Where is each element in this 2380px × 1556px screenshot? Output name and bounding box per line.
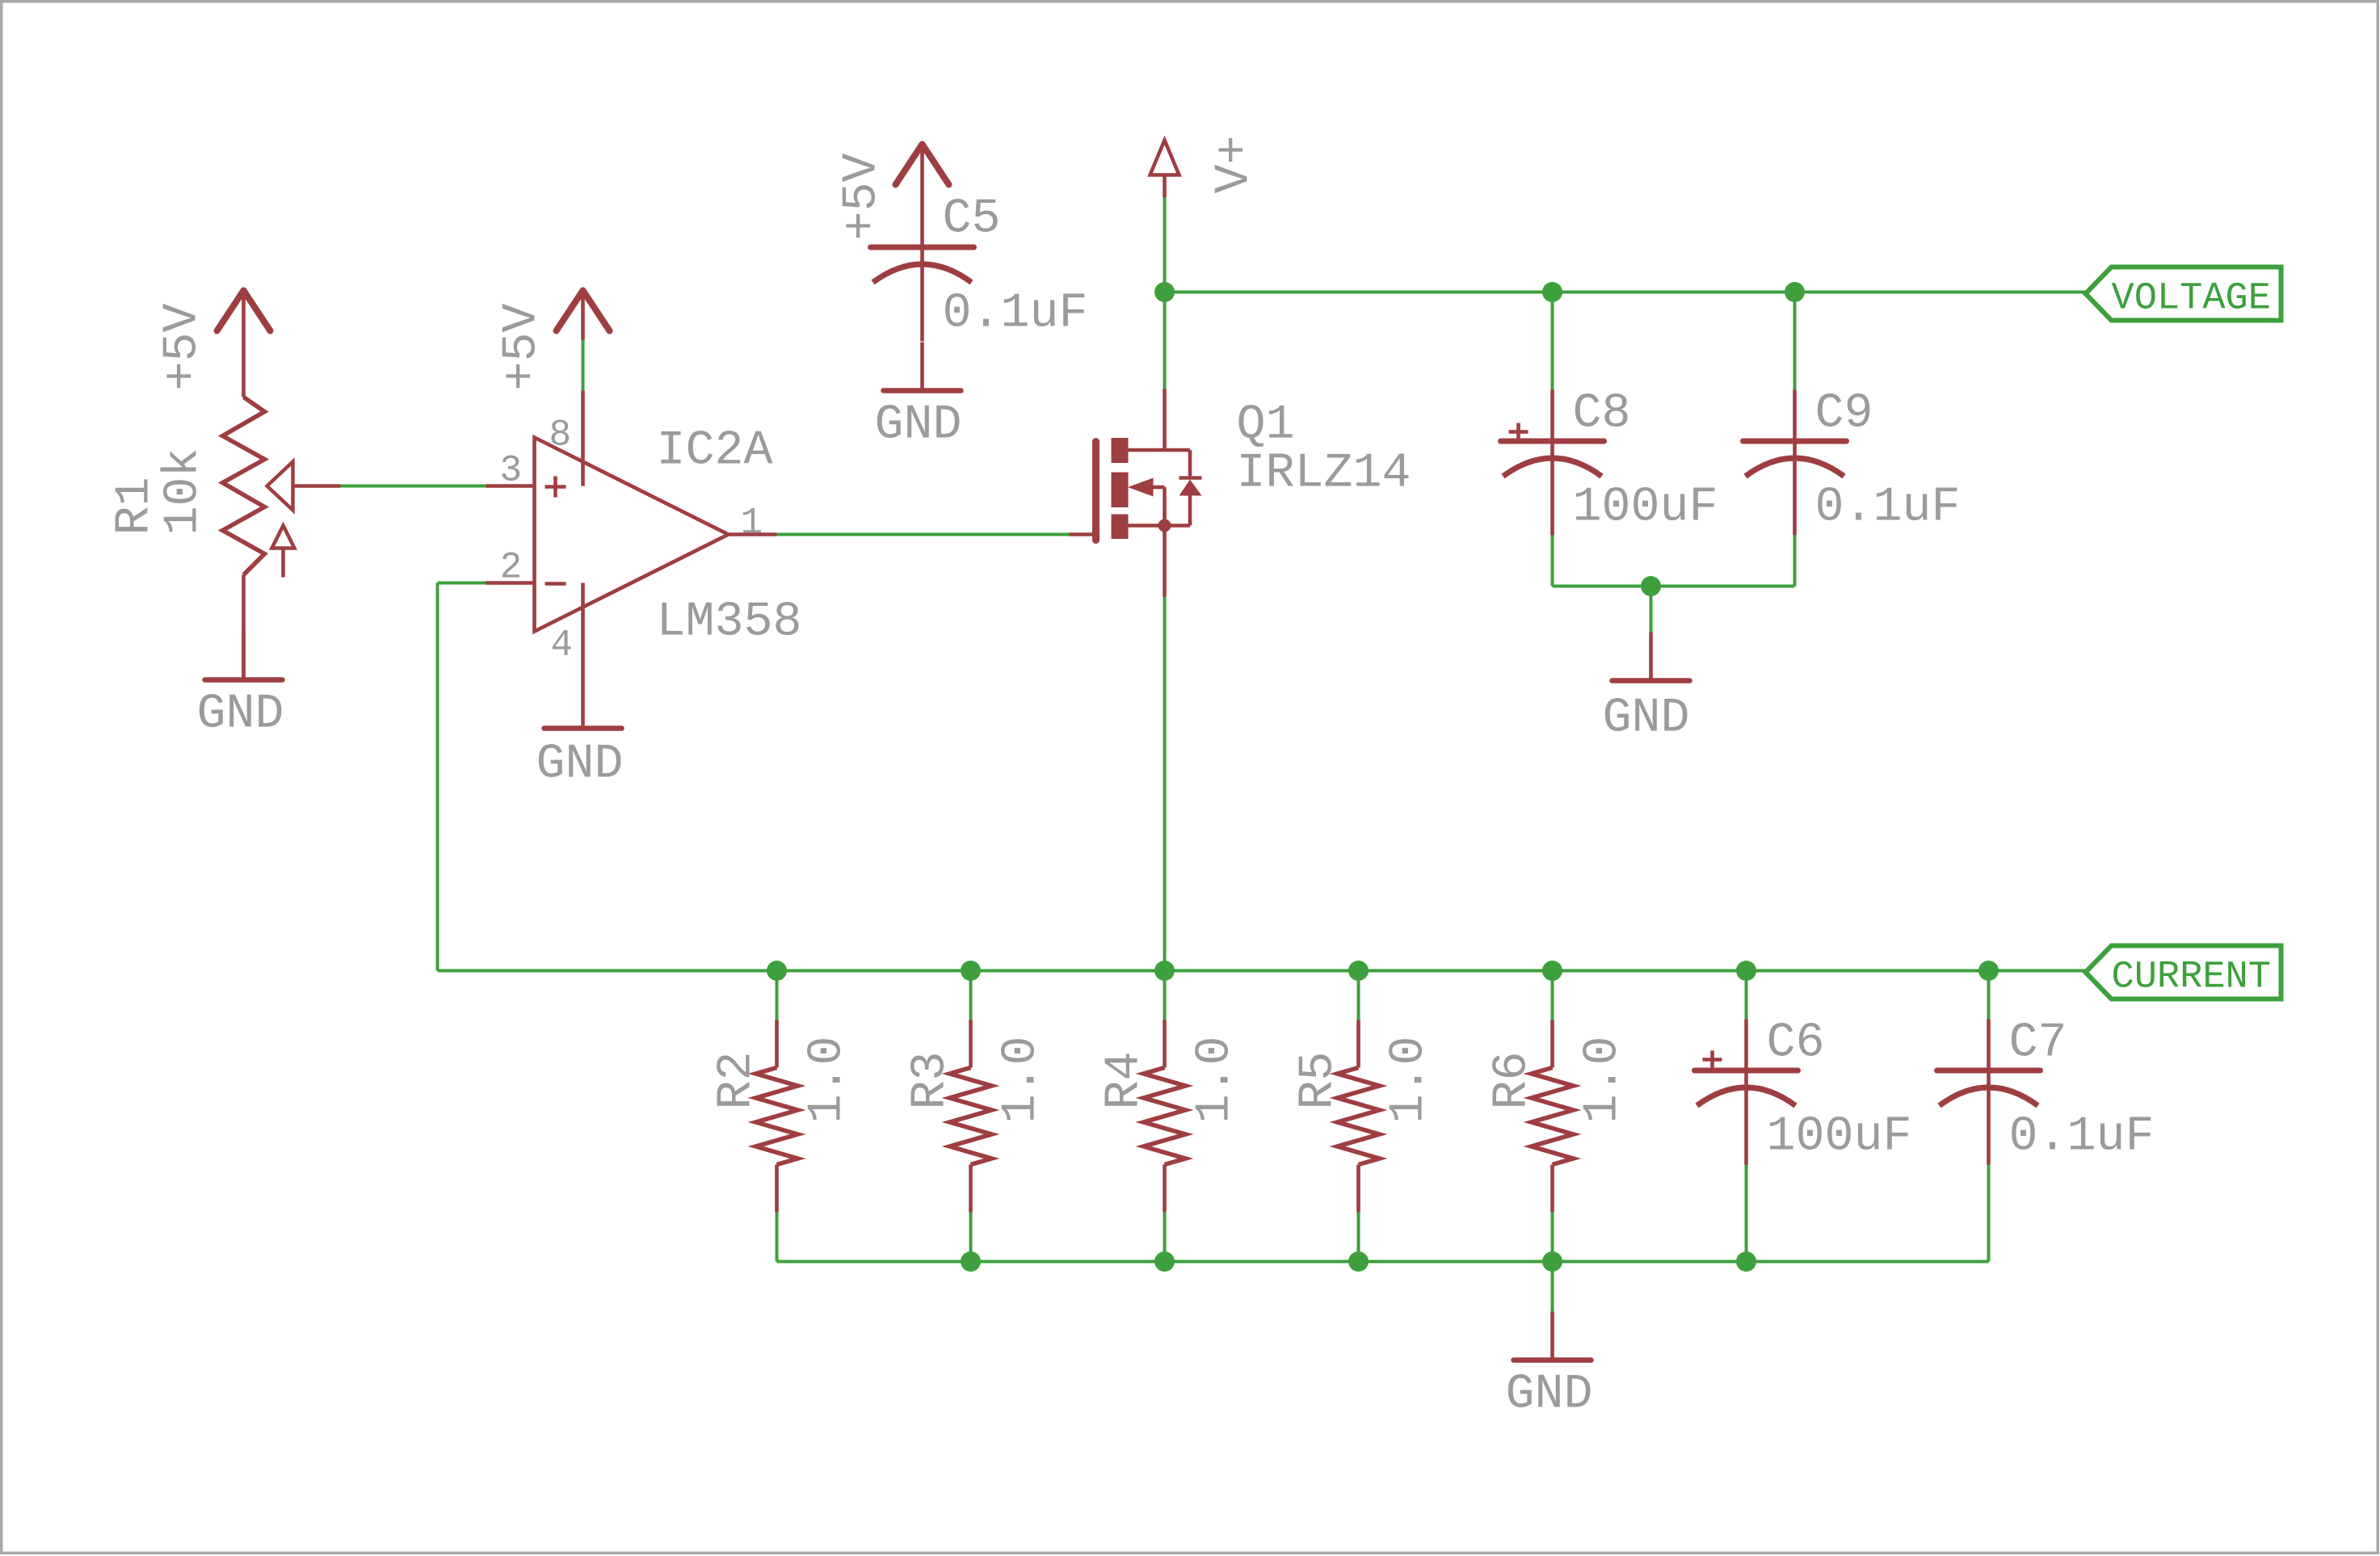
svg-text:VOLTAGE: VOLTAGE: [2112, 278, 2271, 321]
svg-text:CURRENT: CURRENT: [2112, 957, 2271, 999]
svg-text:C6: C6: [1767, 1016, 1825, 1071]
svg-text:R1: R1: [108, 477, 163, 535]
svg-text:1.0: 1.0: [1576, 1036, 1631, 1123]
svg-text:R2: R2: [710, 1051, 765, 1109]
svg-text:C7: C7: [2009, 1016, 2067, 1071]
svg-text:4: 4: [551, 625, 574, 667]
svg-text:0.1uF: 0.1uF: [1815, 481, 1961, 536]
svg-text:V+: V+: [1208, 135, 1263, 193]
svg-text:1.0: 1.0: [801, 1036, 856, 1123]
svg-text:R3: R3: [904, 1051, 959, 1109]
svg-text:R4: R4: [1098, 1051, 1153, 1109]
svg-text:R6: R6: [1486, 1051, 1541, 1109]
svg-text:GND: GND: [197, 688, 284, 742]
svg-text:1: 1: [741, 503, 763, 545]
svg-text:2: 2: [500, 547, 523, 589]
svg-text:+5V: +5V: [495, 303, 550, 390]
svg-text:GND: GND: [875, 398, 962, 453]
svg-text:100uF: 100uF: [1573, 481, 1718, 536]
svg-text:IRLZ14: IRLZ14: [1237, 447, 1411, 502]
svg-text:10k: 10k: [157, 448, 212, 535]
svg-text:3: 3: [500, 450, 523, 492]
svg-text:Q1: Q1: [1237, 398, 1295, 453]
svg-text:1.0: 1.0: [1382, 1036, 1437, 1123]
svg-text:R5: R5: [1292, 1051, 1347, 1109]
svg-text:LM358: LM358: [657, 595, 802, 650]
svg-text:+5V: +5V: [156, 303, 211, 390]
svg-text:C9: C9: [1815, 387, 1873, 442]
svg-text:8: 8: [549, 414, 572, 456]
svg-text:0.1uF: 0.1uF: [2009, 1110, 2155, 1165]
svg-text:C5: C5: [943, 192, 1001, 247]
svg-text:1.0: 1.0: [994, 1036, 1049, 1123]
svg-text:GND: GND: [536, 738, 624, 793]
svg-text:+5V: +5V: [835, 153, 890, 240]
svg-text:100uF: 100uF: [1767, 1110, 1912, 1165]
svg-text:0.1uF: 0.1uF: [943, 287, 1088, 342]
svg-text:1.0: 1.0: [1188, 1036, 1243, 1123]
svg-text:IC2A: IC2A: [657, 424, 773, 479]
svg-text:C8: C8: [1573, 387, 1631, 442]
svg-text:GND: GND: [1603, 692, 1690, 746]
svg-text:GND: GND: [1506, 1368, 1593, 1423]
